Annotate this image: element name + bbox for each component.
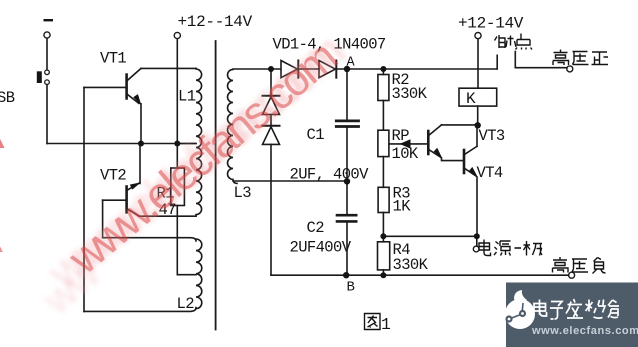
svg-text:330K: 330K [393, 256, 429, 274]
label gaoyafu char ya [572, 259, 588, 272]
inductor L2 [196, 239, 202, 309]
pushbutton SB [45, 70, 50, 75]
wire VT1 collector to L1 top [141, 67, 196, 69]
capacitor C2 [346, 181, 348, 214]
wire [46, 38, 48, 70]
resistor R1 [171, 168, 185, 206]
transistor VT1 [125, 75, 128, 99]
label gaoyazheng char gao [553, 50, 569, 66]
svg-text:1K: 1K [393, 198, 412, 216]
svg-text:VT4: VT4 [477, 164, 503, 182]
svg-text:www.elecfans.com: www.elecfans.com [531, 325, 638, 337]
wire VT2 collector to L1 bottom [139, 215, 196, 217]
svg-text:+12-14V: +12-14V [458, 15, 524, 33]
diode VD4 [263, 125, 280, 127]
label dianyuan-ji char yuan [494, 241, 511, 256]
diode VD1 [281, 61, 297, 78]
wire [46, 85, 48, 144]
svg-text:▲: ▲ [0, 239, 6, 256]
wire to L2 bottom [84, 308, 196, 312]
transistor VT3 [427, 131, 430, 154]
terminal hv-neg [569, 272, 575, 278]
terminal power-neg stub [476, 236, 478, 246]
red diagonal watermark [0, 26, 353, 324]
arrow VT1 emitter [133, 94, 141, 106]
svg-text:330K: 330K [392, 85, 428, 103]
left +12 terminal [174, 32, 180, 38]
label chudian (contact) char chu [495, 35, 517, 48]
svg-text:VT3: VT3 [479, 127, 505, 145]
bottom rail B [271, 274, 569, 276]
svg-text:+12--14V: +12--14V [178, 13, 253, 31]
terminal minus [44, 32, 50, 38]
minus label [44, 19, 54, 21]
transformer core [215, 41, 217, 330]
mid-right line [383, 235, 476, 237]
label figure tu (图) [365, 314, 381, 330]
top rail node A [233, 68, 497, 70]
RP wiper arrow [389, 143, 428, 145]
wire VT1 base down [83, 87, 85, 311]
svg-text:L2: L2 [177, 295, 195, 313]
inductor L3 [228, 69, 238, 183]
resistor R2 [382, 69, 384, 75]
resistor R4 [378, 242, 390, 270]
relay coil K [459, 88, 497, 106]
label chudian char dian [516, 34, 533, 50]
logo CJK title fa [566, 299, 583, 318]
svg-text:2UF, 400V: 2UF, 400V [290, 166, 370, 184]
svg-text:10K: 10K [392, 145, 419, 163]
svg-text:2UF400V: 2UF400V [290, 239, 352, 257]
right +12 wire [475, 33, 481, 39]
label gaoyazheng char ya [573, 52, 589, 65]
wire [270, 115, 272, 126]
svg-text:RP: RP [392, 127, 410, 145]
svg-text:VT1: VT1 [100, 50, 126, 68]
wire diode branch down [270, 69, 272, 95]
capacitor C1 [346, 70, 348, 120]
diode VD2 [319, 61, 335, 78]
resistor R3 [378, 187, 389, 212]
label gaoyafu char fu [593, 258, 606, 274]
svg-text:▲: ▲ [0, 135, 8, 152]
mid line L3 bottom [233, 180, 347, 182]
logo plate bottom right [505, 283, 638, 347]
diode VD3 [263, 95, 280, 97]
label gaoyazheng char zheng [592, 52, 609, 65]
svg-text:VT2: VT2 [100, 167, 126, 185]
svg-text:SB: SB [0, 89, 15, 107]
svg-text:C1: C1 [307, 126, 325, 144]
wire tap L1 [177, 143, 196, 145]
logo CJK title dian [534, 299, 619, 319]
svg-text:1: 1 [381, 315, 391, 334]
label dianyuan-ji hyphen [515, 247, 522, 249]
label dianyuan-ji char ji [524, 241, 543, 256]
svg-text:C2: C2 [307, 219, 325, 237]
logo CJK title zi [550, 302, 563, 320]
label dianyuan-ji (power neg) char dian [479, 240, 491, 256]
transistor VT4 [463, 150, 466, 173]
potentiometer RP [378, 130, 389, 156]
label gaoyafu char gao [553, 257, 569, 273]
arrow VT2 emitter [130, 182, 141, 189]
transistor VT2 [125, 187, 128, 213]
svg-text:L3: L3 [234, 184, 252, 202]
inductor L1 [196, 68, 202, 215]
svg-text:L1: L1 [178, 88, 196, 106]
logo CJK title you [608, 300, 619, 318]
wire emitter rail [47, 143, 196, 145]
logo CJK title shao [586, 300, 606, 319]
wire diode chain to rail B [270, 144, 272, 275]
svg-text:K: K [466, 90, 476, 108]
wire R1 to L2 tap [177, 274, 196, 276]
wire VT2 base path to L2 top [103, 200, 196, 241]
svg-text:B: B [347, 280, 355, 296]
logo mark disc [505, 299, 535, 329]
hand-drawn CJK labels [365, 34, 609, 330]
relay contact [496, 55, 498, 69]
